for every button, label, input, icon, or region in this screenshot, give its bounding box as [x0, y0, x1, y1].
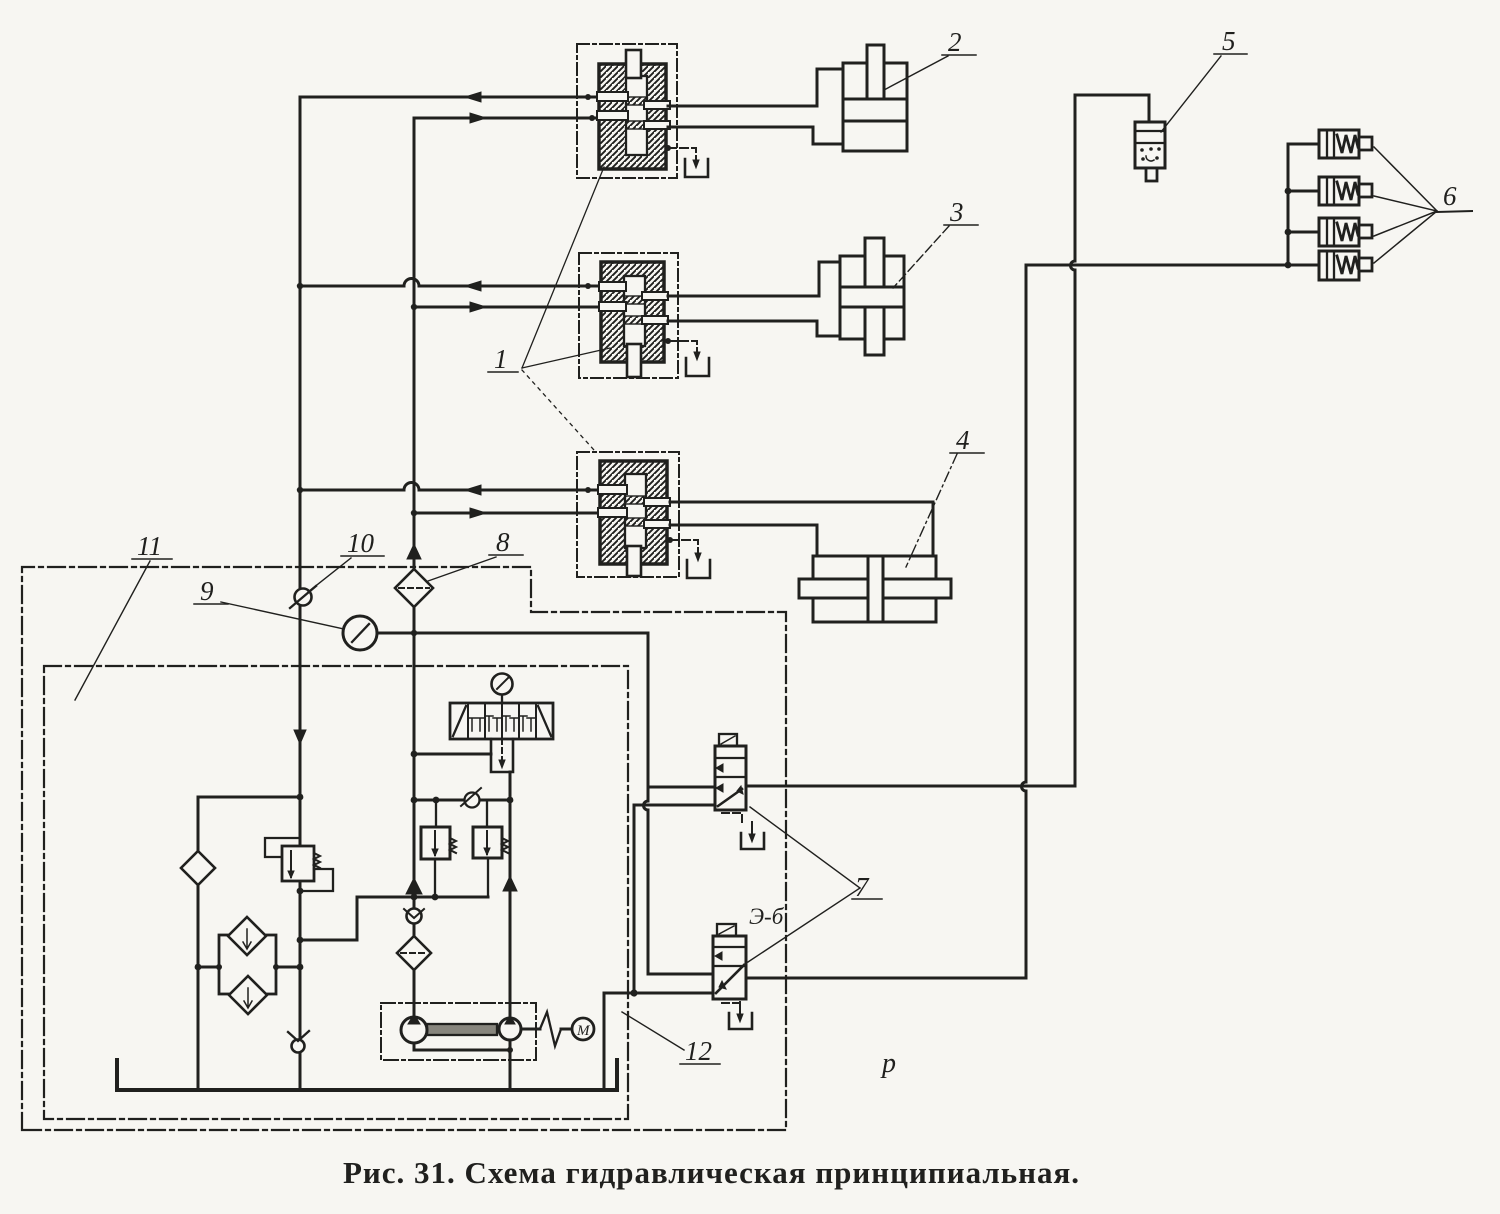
svg-text:3: 3 — [949, 197, 964, 227]
svg-text:11: 11 — [137, 531, 162, 561]
wire return line to distributor 2 — [300, 279, 599, 287]
arrow up on center bus (pump 1 delivery) — [406, 878, 422, 894]
multi-section control valve — [450, 703, 553, 739]
check valve 10 on left bus — [290, 586, 316, 608]
svg-text:10: 10 — [347, 528, 375, 558]
wire center bus vertical — [413, 118, 416, 1017]
wire heat exchanger links — [198, 966, 300, 969]
wire riser to nozzles 6 — [1022, 265, 1027, 975]
arrow left, line 3 — [465, 281, 481, 291]
wire drain manifold below relief valves — [357, 896, 488, 899]
wire center bus to control valve drain — [414, 753, 491, 756]
distributor 3 (hatched section) — [577, 452, 679, 577]
svg-text:4: 4 — [956, 425, 970, 455]
nozzle 6 unit 4 — [1319, 251, 1372, 280]
svg-text:6: 6 — [1443, 181, 1457, 211]
pressure gauge 9 — [343, 616, 377, 650]
wire suction branch top link — [198, 796, 300, 799]
svg-text:1: 1 — [494, 344, 508, 374]
wire pressure line to distributor 2 — [414, 306, 599, 309]
wire relief manifold (upper) — [414, 799, 510, 802]
svg-text:2: 2 — [948, 27, 962, 57]
arrow left, line 1 — [465, 92, 481, 102]
wire pressure line to distributor 3 — [414, 512, 599, 515]
suction filter on center bus (diamond) — [397, 936, 431, 970]
motor coupling (zigzag) and motor M — [521, 1012, 594, 1046]
wire junction to tank step — [604, 993, 634, 1088]
wire distributor 2 to cylinder 3 (upper) — [668, 262, 840, 296]
check valve on center bus — [404, 909, 424, 924]
wire manifold of nozzles 6 — [1288, 144, 1319, 265]
drain of distributor 1 — [665, 145, 708, 177]
tank boundary 11 (outer dash-dot) — [22, 567, 786, 1130]
svg-text:7: 7 — [855, 872, 870, 902]
reservoir boundary (inner dash-dot) — [44, 666, 628, 1119]
arrow left, line 5 — [465, 485, 481, 495]
wire horizontal feed to nozzles 6 — [1026, 264, 1288, 267]
svg-text:p: p — [880, 1048, 896, 1079]
wire top link to component 5 — [1075, 95, 1149, 122]
heat exchanger / filter block (two diamonds in loop) — [219, 917, 276, 1014]
wire pressure line to distributor 1 — [414, 117, 599, 120]
tank bottom (thick U) — [117, 1060, 617, 1090]
pilot gauge above distributor block 12? small gauge — [492, 674, 513, 704]
wire pump line riser to solenoid 7a — [634, 805, 715, 993]
drain of solenoid valve 7a — [722, 813, 764, 849]
wire distributor 1 to cylinder 2 (lower) — [668, 127, 843, 144]
nozzle 6 unit 1 — [1319, 130, 1372, 158]
solenoid valve 7a (electro-pneumatic valve) — [715, 734, 746, 810]
cylinder 3 (brake chamber with through rod) — [840, 238, 904, 355]
drain of distributor 3 — [667, 537, 710, 578]
wire input to solenoid valve 7a — [648, 786, 715, 789]
svg-text:М: М — [576, 1023, 591, 1039]
wire gauge line to solenoid feed — [377, 632, 648, 635]
wire solenoid feed riser (with jog over input2) — [644, 633, 714, 974]
svg-text:5: 5 — [1222, 26, 1236, 56]
wire distributor 2 to cylinder 3 (lower) — [668, 321, 840, 336]
nozzle 6 unit 2 — [1319, 177, 1372, 205]
node bus junction dots — [297, 94, 595, 636]
arrow right, line 4 — [470, 302, 486, 312]
pump unit dash-dot enclosure 12 — [381, 1003, 536, 1060]
ball check valve at left bus bottom — [288, 1031, 309, 1053]
svg-text:8: 8 — [496, 527, 510, 557]
pilot check valve (circle) on manifold — [461, 788, 481, 808]
wire pump suction manifold — [414, 1040, 510, 1088]
svg-text:12: 12 — [685, 1036, 712, 1066]
wire left bus vertical — [299, 97, 302, 1088]
wire junction to solenoid valve 7b — [634, 992, 713, 995]
svg-text:9: 9 — [200, 576, 214, 606]
drain of distributor 2 — [665, 338, 709, 376]
arrow up on pump 2 riser — [503, 876, 517, 891]
wire return line to distributor 1 — [300, 96, 599, 99]
svg-text:Э-б: Э-б — [749, 904, 785, 929]
suction filter left (diamond) — [181, 851, 215, 885]
relief valve A (center) — [421, 800, 456, 897]
wire output of solenoid 7a (long) — [746, 785, 1075, 788]
pump 2 (circle) — [499, 1015, 521, 1040]
wire drain manifold step to left relief valve — [300, 897, 357, 940]
wire riser to air valve 5 — [1071, 95, 1076, 786]
arrow right, line 6 — [470, 508, 486, 518]
wire distributor 3 to cylinder 4 (lower) — [670, 525, 817, 556]
svg-text:Рис. 31. Схема гидравлическая: Рис. 31. Схема гидравлическая принципиал… — [343, 1155, 1080, 1190]
wire suction branch vertical — [197, 797, 200, 1088]
wire distributor 3 to cylinder 4 (upper, long) — [670, 502, 933, 556]
distributor 2 (hatched section) — [579, 253, 678, 378]
solenoid valve 7b (electro-pneumatic valve) — [713, 924, 746, 999]
node junction pump drain — [630, 989, 637, 996]
cylinder 2 (brake chamber) — [843, 45, 907, 151]
air valve 5 — [1135, 122, 1165, 181]
nozzle 6 unit 3 — [1319, 218, 1372, 246]
relief valve B (center) — [473, 800, 508, 897]
cylinder 4 (horizontal cylinder with through rod) — [799, 556, 951, 622]
pump shaft — [427, 1024, 497, 1035]
wire distributor 1 to cylinder 2 (upper) — [668, 69, 843, 106]
pump 1 (circle) — [401, 1014, 427, 1043]
arrow right, line 2 — [470, 113, 486, 123]
wire return line to distributor 3 — [300, 483, 599, 490]
drain of control valve — [491, 739, 513, 772]
filter 8 (diamond) — [395, 569, 433, 607]
drain of solenoid valve 7b — [722, 1002, 752, 1029]
distributor 1 (brake valve, hatched section) — [577, 44, 677, 178]
wire output of solenoid 7b — [746, 977, 1026, 980]
arrow up on center bus above filter 8 — [407, 544, 421, 559]
left relief valve (on left bus) — [265, 730, 333, 894]
wire pump 2 riser — [509, 772, 512, 1018]
